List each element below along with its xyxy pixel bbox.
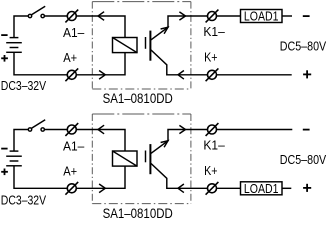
arrow on input bottom wire (points right) <box>99 184 105 193</box>
terminal A+ (circle with slash) <box>65 182 78 195</box>
terminal K+ (circle with slash) <box>206 68 219 81</box>
wire switch to A1- terminal <box>44 15 67 17</box>
switch S2 throw contact <box>41 128 44 131</box>
terminal K+ (circle with slash) <box>206 182 219 195</box>
supply minus sign (DC5-80V) <box>303 15 310 17</box>
battery B2 plus sign <box>1 169 8 176</box>
wire A1- into module, down to coil <box>76 16 125 38</box>
switch S2 lever <box>31 120 45 129</box>
svg-text:DC3–32V: DC3–32V <box>1 193 46 207</box>
svg-text:SA1–0810DD: SA1–0810DD <box>103 205 173 219</box>
wire load to supply minus <box>282 15 292 17</box>
wire switch to A1- terminal <box>44 129 67 131</box>
output transistor Q1 gate bar <box>145 37 147 49</box>
terminal K1- (circle with slash) <box>206 10 219 23</box>
wire K1- to load <box>217 15 241 17</box>
svg-text:DC5–80V: DC5–80V <box>280 152 326 167</box>
load resistor LOAD1 box <box>241 10 283 23</box>
battery B1 positive lead wire <box>14 52 67 75</box>
arrow on output top wire (points right) <box>179 12 185 20</box>
svg-text:K+: K+ <box>204 164 218 178</box>
svg-text:A1–: A1– <box>63 139 84 153</box>
svg-text:K1–: K1– <box>203 25 225 39</box>
arrow on output bottom wire (points left) <box>178 184 184 193</box>
switch S1 lever <box>31 6 45 15</box>
switch S1 pole contact <box>28 14 31 17</box>
SSR module U1 dash-dot outline box <box>92 2 191 89</box>
terminal A1- (circle with slash) <box>65 123 78 136</box>
arrow on input top wire (points left) <box>98 125 104 134</box>
arrow on output top wire (points right) <box>179 125 185 133</box>
svg-text:K+: K+ <box>204 51 218 65</box>
output transistor Q2 collector lead <box>151 130 208 154</box>
wire K+ to load <box>217 187 241 189</box>
battery B2 plates <box>6 151 22 166</box>
arrow on input bottom wire (points right) <box>99 71 105 80</box>
wire K1- to supply minus <box>217 129 293 131</box>
arrow on input top wire (points left) <box>98 12 104 21</box>
svg-text:A+: A+ <box>63 164 77 179</box>
svg-text:LOAD1: LOAD1 <box>244 9 279 24</box>
battery B1 minus sign <box>1 34 7 36</box>
battery B1 plus sign <box>1 55 8 62</box>
svg-text:A+: A+ <box>63 50 77 65</box>
wire A1- into module, down to coil <box>76 130 125 152</box>
svg-text:DC3–32V: DC3–32V <box>1 79 46 93</box>
output transistor Q1 collector lead <box>151 16 208 40</box>
output transistor Q1 body bar <box>149 31 151 61</box>
load resistor LOAD1 box <box>241 182 283 195</box>
output transistor Q2 gate bar <box>145 151 147 163</box>
battery B1 negative lead wire <box>14 16 28 38</box>
battery B2 positive lead wire <box>14 166 67 189</box>
supply plus sign (DC5-80V) <box>303 70 311 78</box>
svg-text:SA1–0810DD: SA1–0810DD <box>103 90 173 106</box>
output transistor Q2 body bar <box>149 144 151 174</box>
arrow on collector (points up-right) <box>161 141 168 148</box>
arrow on output bottom wire (points left) <box>178 71 184 80</box>
output transistor Q2 emitter lead <box>151 163 208 188</box>
battery B1 plates <box>6 38 22 53</box>
input coil/drive element (rect with diagonal) <box>113 38 138 53</box>
switch S2 pole contact <box>28 128 31 131</box>
terminal A1- (circle with slash) <box>65 10 78 23</box>
wire load to supply plus <box>282 187 291 189</box>
wire K+ to supply plus <box>217 74 292 76</box>
arrow on collector (points up-right) <box>161 27 168 34</box>
wire A+ into module, up to coil <box>76 166 125 188</box>
wire A+ into module, up to coil <box>76 53 125 75</box>
supply minus sign (DC5-80V) <box>303 129 310 131</box>
terminal K1- (circle with slash) <box>206 123 219 136</box>
supply plus sign (DC5-80V) <box>303 184 311 192</box>
terminal A+ (circle with slash) <box>65 68 78 81</box>
input coil/drive element (rect with diagonal) <box>113 151 138 166</box>
battery B2 negative lead wire <box>14 130 28 152</box>
svg-text:LOAD1: LOAD1 <box>244 181 279 196</box>
battery B2 minus sign <box>1 148 7 150</box>
svg-text:DC5–80V: DC5–80V <box>280 38 326 53</box>
svg-text:K1–: K1– <box>203 138 225 152</box>
switch S1 throw contact <box>41 14 44 17</box>
output transistor Q1 emitter lead <box>151 50 208 75</box>
svg-text:A1–: A1– <box>63 26 84 40</box>
SSR module U2 dash-dot outline box <box>92 114 191 204</box>
